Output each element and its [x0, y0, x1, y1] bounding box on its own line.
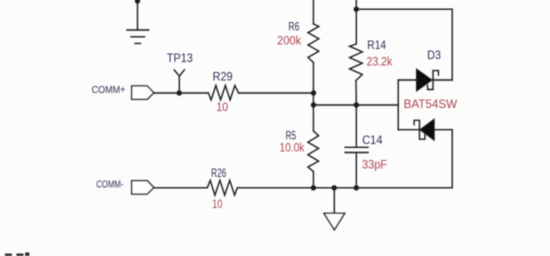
svg-text:BAT54SW: BAT54SW: [404, 99, 458, 111]
wire: top bus node C to right rail: [356, 8, 452, 10]
svg-text:10.0k: 10.0k: [280, 143, 305, 155]
svg-text:R6: R6: [288, 19, 299, 33]
wire: right rail top vertical: [451, 9, 453, 80]
node F junction dot (ground/bottom bus): [332, 185, 337, 190]
diode D3b triangle: [420, 119, 434, 140]
svg-text:23.2k: 23.2k: [367, 57, 393, 69]
diode D3a schottky cathode bar: [428, 71, 439, 90]
svg-text:R29: R29: [213, 70, 233, 84]
node D junction dot (R14/C14/mid bus): [354, 102, 359, 107]
svg-text:10: 10: [212, 199, 222, 211]
svg-text:COMM-: COMM-: [96, 180, 123, 191]
wire: D3b anode to right rail: [434, 129, 452, 131]
wire: R29 to node A: [239, 92, 314, 94]
resistor R29 body: [208, 86, 238, 100]
wire: C14 to bottom bus: [355, 153, 357, 188]
svg-text:TP13: TP13: [167, 51, 193, 65]
wire: top ground stem: [137, 1, 139, 30]
wire: COMM- to R26: [154, 187, 208, 189]
node B junction dot (R5/mid bus): [311, 102, 316, 107]
svg-text:200k: 200k: [277, 36, 301, 48]
node C junction dot (R14 top / D3 loop): [354, 7, 359, 12]
svg-text:33pF: 33pF: [362, 160, 387, 172]
ground GND top-left: junction dot: [135, 0, 140, 4]
ground GND top-left: bar 3: [135, 42, 140, 44]
diode D3b schottky cathode bar: [414, 120, 425, 139]
wire: right rail bottom vertical: [451, 130, 453, 188]
wire: R26 to bottom bus: [237, 187, 452, 189]
capacitor C14 plate 2: [345, 152, 368, 154]
node A junction dot (R29/R6): [311, 90, 316, 95]
wire: node D to C14: [355, 105, 357, 146]
svg-text:R26: R26: [211, 166, 226, 180]
resistor R14 body: [350, 44, 363, 81]
wire: node B to R5: [312, 105, 314, 131]
wire: D3a cathode to right rail: [433, 79, 452, 81]
wire: V feed to R14: [355, 0, 357, 44]
wire: tee to D3b cathode: [398, 129, 419, 131]
ground GND top-left: bar 1: [127, 29, 149, 31]
wire: R5 to bottom bus: [312, 172, 314, 188]
node G junction dot (C14/bottom bus): [354, 185, 359, 190]
wire: COMM+ to R29: [154, 92, 209, 94]
wire: R14 to node D: [355, 81, 357, 106]
cropped text remnant at bottom edge: [5, 252, 30, 256]
ground AGND triangle: [324, 213, 345, 230]
test point TP13 symbol: [174, 70, 184, 93]
port COMM- connector symbol: [132, 181, 154, 194]
svg-text:R5: R5: [286, 128, 297, 142]
resistor R26 body: [207, 180, 237, 195]
svg-text:C14: C14: [362, 133, 383, 147]
ground GND top-left: bar 2: [131, 36, 145, 38]
svg-text:R14: R14: [367, 38, 386, 52]
resistor R5 body: [308, 131, 319, 172]
svg-text:10: 10: [216, 102, 228, 114]
wire: R6 to node A: [312, 63, 314, 106]
resistor R6 body: [308, 24, 319, 63]
wire: tee vertical (anode feed): [397, 80, 399, 130]
node: TP13 junction dot: [177, 90, 182, 95]
wire: V+ feed to R6: [312, 0, 314, 24]
svg-text:D3: D3: [427, 48, 441, 62]
diode D3a triangle: [417, 69, 432, 91]
capacitor C14 plate 1: [345, 146, 368, 148]
wire: tee to D3a anode: [398, 79, 416, 81]
svg-text:COMM+: COMM+: [92, 85, 126, 96]
ground AGND stem: [333, 188, 335, 214]
wire: mid bus node B to diode tee: [314, 104, 399, 106]
port COMM+ connector symbol: [132, 86, 154, 99]
node E junction dot (R5/bottom bus): [311, 185, 316, 190]
